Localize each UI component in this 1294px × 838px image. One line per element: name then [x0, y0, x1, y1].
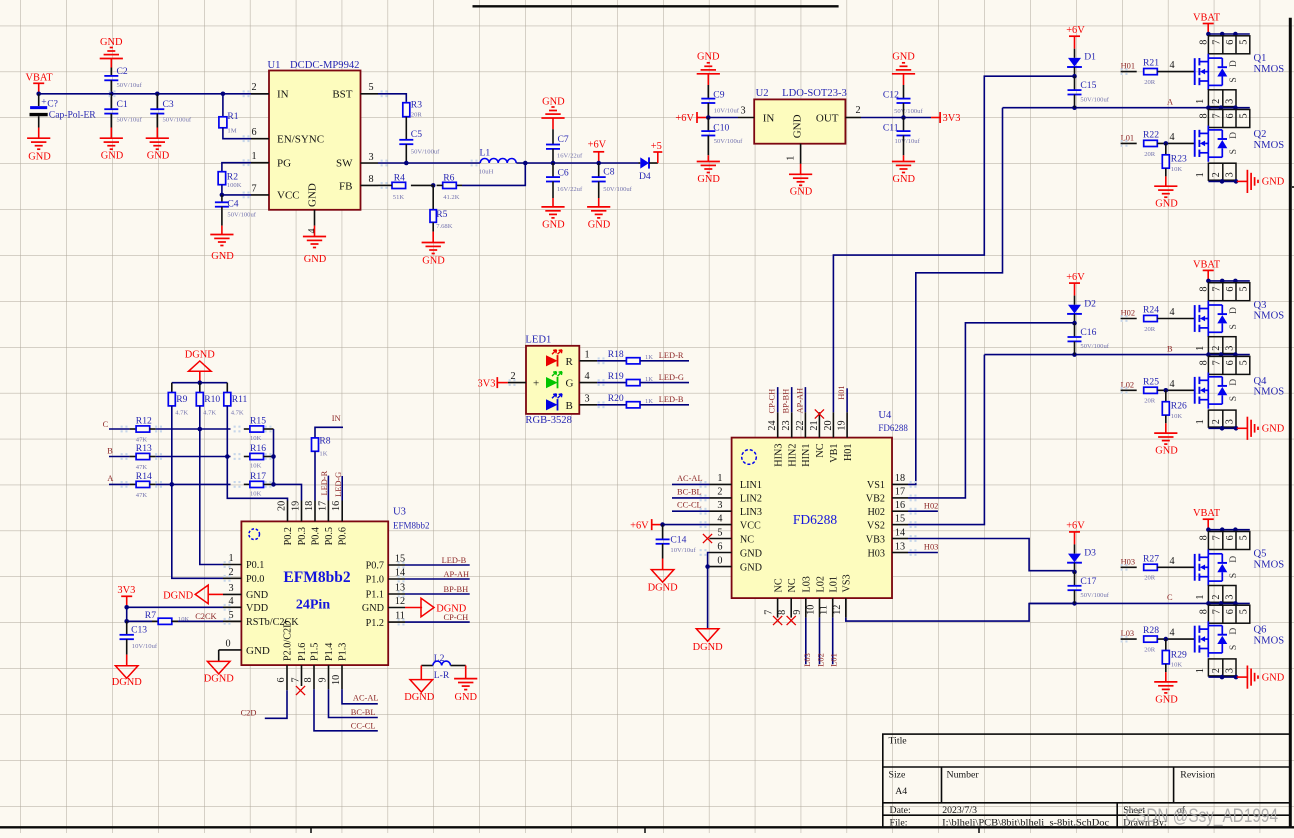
LED LED1 RGB-3528 body	[526, 346, 579, 414]
svg-text:NC: NC	[773, 578, 784, 592]
U4 pin 21 NC	[818, 412, 820, 437]
U3 pin 12 GND with DGND port	[388, 607, 405, 609]
U3 pin 3 GND with DGND port	[223, 593, 241, 595]
svg-text:8: 8	[1198, 113, 1209, 118]
svg-text:C12: C12	[883, 89, 899, 100]
svg-text:7.68K: 7.68K	[436, 223, 453, 230]
svg-text:20R: 20R	[411, 111, 423, 118]
svg-text:NMOS: NMOS	[1254, 64, 1285, 75]
U4 pin 1 LIN1	[710, 483, 732, 485]
U1 pin 7 VCC	[251, 194, 269, 196]
svg-text:100K: 100K	[227, 182, 242, 189]
svg-text:5: 5	[1239, 287, 1250, 292]
wire R9 column to row A and P0.0	[171, 406, 173, 485]
svg-text:CC-CL: CC-CL	[351, 721, 376, 730]
no-connect X on U4 pin21	[815, 409, 824, 418]
svg-text:1: 1	[1195, 172, 1206, 177]
wire pull resistor top bus	[172, 382, 228, 384]
svg-text:R27: R27	[1143, 553, 1159, 564]
svg-text:4.7K: 4.7K	[175, 409, 188, 416]
LED blue element	[546, 399, 558, 410]
sheet border zone tick marks	[310, 827, 312, 833]
ground GND under U1 pin4	[314, 226, 316, 237]
svg-text:R16: R16	[250, 443, 266, 454]
svg-text:R21: R21	[1143, 58, 1159, 69]
wire Q6 source to GND	[1208, 676, 1236, 678]
wire L01 from U4 pin11	[832, 618, 834, 665]
svg-text:GND: GND	[246, 645, 270, 657]
svg-text:6: 6	[1225, 360, 1236, 365]
svg-text:NC: NC	[740, 534, 754, 545]
wire VBAT to Q5 drain pins	[1208, 529, 1250, 531]
svg-text:5: 5	[1239, 113, 1250, 118]
svg-text:GND: GND	[1155, 694, 1178, 705]
svg-text:C7: C7	[558, 134, 569, 145]
svg-text:6: 6	[1225, 113, 1236, 118]
svg-text:22: 22	[795, 420, 806, 430]
svg-text:6: 6	[276, 677, 287, 682]
power flag +5	[649, 162, 658, 164]
svg-text:3: 3	[1225, 172, 1236, 177]
wire VB1 riser to D1 node	[833, 76, 1074, 412]
svg-text:NMOS: NMOS	[1254, 636, 1285, 647]
svg-text:1M: 1M	[227, 128, 236, 135]
svg-text:1: 1	[251, 151, 256, 162]
Q1 source pin boxes 1 2 3	[1208, 90, 1236, 107]
wire VS2 riser to phase B	[908, 355, 984, 525]
svg-text:8: 8	[368, 174, 373, 185]
power port DGND under C14	[662, 559, 664, 570]
U1 pin 2 IN	[251, 93, 269, 95]
wire VS1 riser to phase A	[908, 108, 1003, 485]
wire L01 to R22	[1121, 142, 1137, 144]
U1 pin 6 EN/SYNC	[251, 138, 269, 140]
svg-text:GND: GND	[1262, 177, 1285, 188]
svg-text:Date:: Date:	[890, 805, 911, 816]
svg-text:50V/100uf: 50V/100uf	[603, 186, 632, 193]
svg-text:2: 2	[1211, 668, 1222, 673]
svg-text:LED-R: LED-R	[659, 351, 684, 360]
power port DGND under U3 pin0	[218, 650, 220, 662]
svg-text:10V/10uf: 10V/10uf	[670, 547, 696, 554]
svg-text:Q2: Q2	[1254, 129, 1267, 140]
svg-text:D: D	[1228, 307, 1239, 314]
svg-text:S: S	[1228, 645, 1239, 650]
wire neutral to U3 pin19	[274, 484, 302, 500]
wire L03 to R28	[1121, 638, 1137, 640]
svg-text:20R: 20R	[1144, 151, 1156, 158]
svg-text:GND: GND	[101, 151, 124, 162]
svg-text:P1.1: P1.1	[366, 590, 384, 601]
wire C2D net	[265, 690, 287, 718]
svg-text:GND: GND	[100, 37, 123, 48]
svg-text:16V/22uf: 16V/22uf	[557, 153, 583, 160]
svg-text:AP-AH: AP-AH	[795, 388, 804, 414]
transistor Q4 NMOS	[1194, 377, 1196, 404]
ground GND under C6	[552, 198, 554, 207]
svg-text:G: G	[566, 378, 574, 390]
ground GND under C1	[110, 128, 112, 139]
U1 pin 3 SW	[361, 162, 379, 164]
svg-text:GND: GND	[147, 151, 170, 162]
svg-text:3: 3	[1225, 668, 1236, 673]
wire LDO OUT to 3V3	[861, 117, 931, 119]
U4 pin 9 L03	[805, 598, 807, 618]
svg-text:Q5: Q5	[1254, 549, 1267, 560]
op-amp U1 DCDC-MP9942 body	[269, 71, 361, 210]
svg-text:C4: C4	[227, 199, 238, 210]
wire L02 from U4 pin10	[819, 618, 821, 665]
svg-text:C: C	[1167, 593, 1173, 602]
svg-text:GND: GND	[740, 562, 762, 573]
svg-text:6: 6	[717, 541, 722, 552]
svg-text:H01: H01	[1121, 62, 1135, 71]
resistor R12 47K	[130, 428, 137, 430]
svg-text:P0.2: P0.2	[283, 527, 294, 545]
svg-text:1: 1	[584, 349, 589, 360]
svg-text:20: 20	[277, 501, 288, 511]
svg-text:NC: NC	[787, 578, 798, 592]
svg-text:+6V: +6V	[1066, 521, 1085, 532]
junction L1/FB tap	[523, 161, 528, 166]
svg-text:P1.3: P1.3	[338, 643, 349, 661]
svg-text:P0.7: P0.7	[366, 561, 384, 572]
svg-text:8: 8	[1198, 360, 1209, 365]
transistor Q3 NMOS	[1194, 305, 1196, 332]
svg-text:50V/100uf: 50V/100uf	[1080, 592, 1109, 599]
resistor R26 10K pulldown	[1165, 390, 1167, 401]
svg-text:DGND: DGND	[163, 591, 194, 602]
ground GND under U2 pin1	[800, 164, 802, 175]
U4 pin 18 VS1	[892, 483, 908, 485]
resistor R24 20R	[1144, 315, 1158, 321]
LED1 pin 3 / resistor R20 1K / net LED-B	[579, 404, 597, 406]
wire VB2 to D2 node	[908, 323, 1075, 498]
svg-text:1: 1	[786, 156, 797, 161]
wire LED-R to U3 pin17	[327, 476, 329, 501]
svg-text:VB3: VB3	[866, 534, 885, 545]
U4 pin 11 L01	[832, 598, 834, 618]
svg-text:NMOS: NMOS	[1254, 387, 1285, 398]
U3 pin 19 P0.3	[301, 501, 303, 522]
ground GND under C3	[156, 128, 158, 139]
svg-text:LED-G: LED-G	[659, 373, 684, 382]
resistor R11 4.7K	[226, 383, 228, 393]
svg-text:10: 10	[806, 605, 817, 615]
svg-text:9: 9	[792, 610, 803, 615]
wire R1 to EN/SYNC	[223, 128, 251, 139]
U3 pin 0 GND	[219, 649, 242, 651]
resistor R2	[222, 163, 251, 172]
wire gate of Q6 pin 4	[1157, 638, 1194, 640]
svg-text:24: 24	[767, 420, 778, 430]
svg-text:GND: GND	[1155, 199, 1178, 210]
wire row B to R16	[156, 456, 231, 458]
svg-text:41.2K: 41.2K	[443, 194, 460, 201]
wire gate of Q2 pin 4	[1157, 142, 1194, 144]
svg-text:PG: PG	[277, 157, 291, 169]
ground GND under C?	[38, 128, 40, 139]
svg-text:1: 1	[1195, 595, 1206, 600]
svg-text:Q1: Q1	[1254, 53, 1267, 64]
no-connect X on U4 pin8	[787, 616, 796, 625]
wire R10 column to pin1	[200, 429, 223, 565]
svg-text:DGND: DGND	[404, 692, 435, 703]
junction R10/row C	[198, 427, 203, 432]
svg-text:P1.2: P1.2	[366, 618, 384, 629]
svg-text:L1: L1	[480, 148, 491, 159]
svg-text:A: A	[107, 474, 113, 483]
U4 pin 13 H03	[892, 552, 908, 554]
LED1 pin 4 / resistor R19 1K / net LED-G	[579, 382, 597, 384]
svg-text:R17: R17	[250, 471, 266, 482]
junction R2/C4 on VCC	[220, 193, 225, 198]
transistor Q5 NMOS	[1194, 554, 1196, 581]
svg-text:2: 2	[1211, 346, 1222, 351]
U2 pin 2 OUT	[845, 117, 861, 119]
svg-text:D: D	[1228, 628, 1239, 635]
svg-text:P1.5: P1.5	[310, 643, 321, 661]
svg-text:R13: R13	[136, 443, 152, 454]
svg-text:VB2: VB2	[866, 494, 885, 505]
wire R7 to pin5	[178, 620, 223, 622]
svg-text:S: S	[1228, 149, 1239, 154]
svg-text:BST: BST	[332, 89, 352, 101]
wire CP-CH to U4 pin24	[777, 387, 779, 412]
svg-text:1K: 1K	[319, 450, 327, 457]
U4 pin 24 HIN3	[777, 412, 779, 437]
svg-text:CSDN @Ssy_AD1994: CSDN @Ssy_AD1994	[1125, 806, 1278, 827]
svg-text:Number: Number	[947, 770, 980, 781]
svg-text:P1.0: P1.0	[366, 575, 384, 586]
ground GND under C11	[903, 155, 905, 161]
svg-text:4: 4	[717, 513, 722, 524]
svg-text:NC: NC	[815, 443, 826, 457]
wire phase sense row C	[109, 428, 130, 430]
svg-text:P0.0: P0.0	[246, 574, 264, 585]
svg-text:B: B	[107, 446, 113, 455]
svg-text:10: 10	[331, 675, 342, 685]
svg-text:Q3: Q3	[1254, 300, 1267, 311]
svg-text:4: 4	[1169, 307, 1174, 318]
svg-text:+6V: +6V	[675, 113, 694, 124]
svg-text:L02: L02	[815, 576, 826, 592]
svg-text:R24: R24	[1143, 305, 1159, 316]
svg-text:VS3: VS3	[842, 574, 853, 592]
svg-text:R: R	[566, 356, 574, 368]
svg-text:+6V: +6V	[588, 140, 607, 151]
svg-text:17: 17	[317, 501, 328, 511]
U3 pin 9 P1.4 net BC-BL	[328, 665, 330, 689]
wire SW node to inductor	[378, 162, 480, 164]
ground GND at Q6 source (sideways)	[1237, 676, 1248, 678]
svg-text:10K: 10K	[250, 490, 262, 497]
LED1 pin 1 / resistor R18 1K / net LED-R	[579, 360, 597, 362]
wire H01 net label on U4 pin19	[846, 388, 848, 412]
svg-text:IN: IN	[277, 89, 289, 101]
svg-text:4: 4	[307, 228, 318, 233]
svg-text:P0.3: P0.3	[297, 527, 308, 545]
no-connect X on U4 pin5	[703, 534, 712, 543]
capacitor C? Cap-Pol-ER polarized	[38, 94, 40, 106]
svg-text:8: 8	[777, 610, 788, 615]
wire U4 GND pins to DGND	[708, 553, 710, 567]
resistor R22 20R	[1144, 140, 1158, 146]
svg-text:HIN1: HIN1	[801, 444, 812, 467]
svg-text:D2: D2	[1084, 299, 1096, 310]
resistor R1	[221, 92, 226, 97]
svg-text:R29: R29	[1171, 649, 1187, 660]
net label CC-CL to LIN3	[672, 510, 710, 512]
svg-text:C16: C16	[1080, 327, 1096, 338]
svg-text:EFM8bb2: EFM8bb2	[283, 569, 350, 586]
svg-text:R4: R4	[394, 172, 405, 183]
power port DGND under U4 GND	[696, 629, 719, 642]
svg-text:3: 3	[584, 393, 589, 404]
ground GND under R29	[1165, 664, 1167, 672]
resistor R28 20R	[1144, 636, 1158, 642]
wire LED-G to U3 pin16	[341, 476, 343, 501]
svg-text:VS1: VS1	[867, 480, 885, 491]
capacitor C5	[405, 117, 407, 140]
svg-text:LIN2: LIN2	[740, 494, 762, 505]
junction C5/SW	[404, 161, 409, 166]
svg-text:IN: IN	[763, 112, 775, 124]
svg-text:C?: C?	[47, 99, 58, 110]
svg-text:R20: R20	[608, 393, 624, 404]
svg-text:R9: R9	[176, 394, 187, 405]
svg-text:23: 23	[781, 420, 792, 430]
svg-text:+6V: +6V	[630, 521, 649, 532]
svg-text:A4: A4	[895, 786, 907, 797]
U3 pin 7 P1.6 no-connect	[301, 665, 303, 686]
ground GND under C4	[221, 226, 223, 235]
svg-text:R14: R14	[136, 471, 152, 482]
U3 pin 17 P0.5	[327, 501, 329, 522]
svg-text:3V3: 3V3	[478, 378, 496, 389]
svg-text:18: 18	[304, 501, 315, 511]
svg-text:24Pin: 24Pin	[296, 598, 330, 613]
resistor R8 1K	[312, 438, 319, 451]
wire VBAT to Q1 drain pins	[1208, 33, 1250, 35]
U1 pin 8 FB	[361, 184, 379, 186]
op-amp U4 FD6288 body	[732, 438, 892, 598]
U4 pin 15 VS2	[892, 524, 908, 526]
svg-text:NMOS: NMOS	[1254, 311, 1285, 322]
svg-text:50V/10uf: 50V/10uf	[117, 117, 143, 124]
svg-text:C10: C10	[713, 123, 729, 134]
svg-text:C11: C11	[883, 123, 899, 134]
svg-text:6: 6	[1225, 287, 1236, 292]
resistor R3	[378, 94, 406, 102]
svg-text:5: 5	[1239, 360, 1250, 365]
svg-text:7: 7	[1211, 535, 1222, 540]
svg-text:CC-CL: CC-CL	[677, 501, 702, 510]
svg-text:R3: R3	[411, 100, 422, 111]
junction R11/row B	[225, 454, 230, 459]
U3 pin 2 P0.0	[223, 577, 241, 579]
resistor R4 51K	[411, 184, 433, 186]
junction R9/row A	[170, 482, 175, 487]
ground GND at Q4 source (sideways)	[1237, 427, 1248, 429]
resistor R14 47K	[130, 483, 137, 485]
U4 pin 12 VS3	[845, 598, 847, 618]
Q4 source pin boxes 1 2 3	[1208, 410, 1236, 427]
svg-text:C14: C14	[670, 535, 686, 546]
svg-text:1: 1	[1195, 99, 1206, 104]
svg-text:+6V: +6V	[1066, 272, 1085, 283]
transistor Q2 NMOS	[1194, 130, 1196, 157]
svg-text:6: 6	[1225, 535, 1236, 540]
net label AC-AL to LIN1	[672, 483, 710, 485]
svg-text:3: 3	[1225, 99, 1236, 104]
svg-text:2: 2	[717, 487, 722, 498]
svg-text:+5: +5	[651, 141, 662, 152]
svg-text:4: 4	[1169, 379, 1174, 390]
op-amp U2 LDO-SOT23-3 body	[754, 99, 845, 143]
svg-text:14: 14	[895, 527, 905, 538]
svg-text:IN: IN	[332, 414, 341, 423]
svg-text:EFM8bb2: EFM8bb2	[393, 521, 430, 531]
svg-text:GND: GND	[1262, 672, 1285, 683]
svg-text:7: 7	[1211, 113, 1222, 118]
svg-text:3: 3	[740, 106, 745, 117]
svg-text:50V/100uf: 50V/100uf	[714, 138, 743, 145]
resistor R23 10K pulldown	[1165, 143, 1167, 154]
svg-text:16V/22uf: 16V/22uf	[557, 186, 583, 193]
wire R11 column to U3 pin20	[227, 457, 287, 501]
svg-text:GND: GND	[893, 174, 916, 185]
svg-text:1: 1	[1195, 419, 1206, 424]
svg-text:50V/10uf: 50V/10uf	[117, 82, 143, 89]
Q2 drain pin boxes 8 7 6 5	[1208, 110, 1249, 128]
svg-text:12: 12	[832, 605, 843, 615]
U3 part mark circle	[249, 529, 260, 540]
svg-text:R22: R22	[1143, 129, 1159, 140]
svg-text:3: 3	[1225, 346, 1236, 351]
U3 pin 14 P1.0 net AP-AH	[388, 578, 405, 580]
Q3 drain pin boxes 8 7 6 5	[1208, 283, 1249, 301]
junction gate/R23	[1164, 141, 1169, 146]
svg-text:R12: R12	[136, 415, 152, 426]
svg-text:GND: GND	[211, 251, 234, 262]
svg-text:H02: H02	[924, 501, 938, 510]
U3 pin 4 VDD	[223, 606, 241, 608]
junction D2/C16	[1072, 321, 1077, 326]
junction R6/R4/R5	[437, 184, 443, 186]
svg-text:19: 19	[291, 501, 302, 511]
svg-text:7: 7	[1211, 360, 1222, 365]
svg-text:10K: 10K	[250, 435, 262, 442]
svg-text:+6V: +6V	[1066, 25, 1085, 36]
svg-text:AC-AL: AC-AL	[353, 693, 379, 702]
svg-text:50V/100uf: 50V/100uf	[894, 108, 923, 115]
svg-text:H02: H02	[1121, 309, 1135, 318]
svg-text:20R: 20R	[1144, 79, 1156, 86]
U4 pin 2 LIN2	[710, 497, 732, 499]
resistor R25 20R	[1144, 387, 1158, 393]
diode D4	[639, 162, 641, 164]
svg-text:5: 5	[1239, 609, 1250, 614]
svg-text:50V/100uf: 50V/100uf	[1080, 343, 1109, 350]
svg-text:7: 7	[1211, 287, 1222, 292]
svg-text:L01: L01	[829, 576, 840, 592]
svg-text:11: 11	[819, 605, 830, 615]
ground GND at Q2 source (sideways)	[1237, 180, 1248, 182]
wire gate of Q1 pin 4	[1157, 71, 1194, 73]
svg-text:BC-BL: BC-BL	[677, 487, 702, 496]
svg-text:6: 6	[251, 127, 256, 138]
